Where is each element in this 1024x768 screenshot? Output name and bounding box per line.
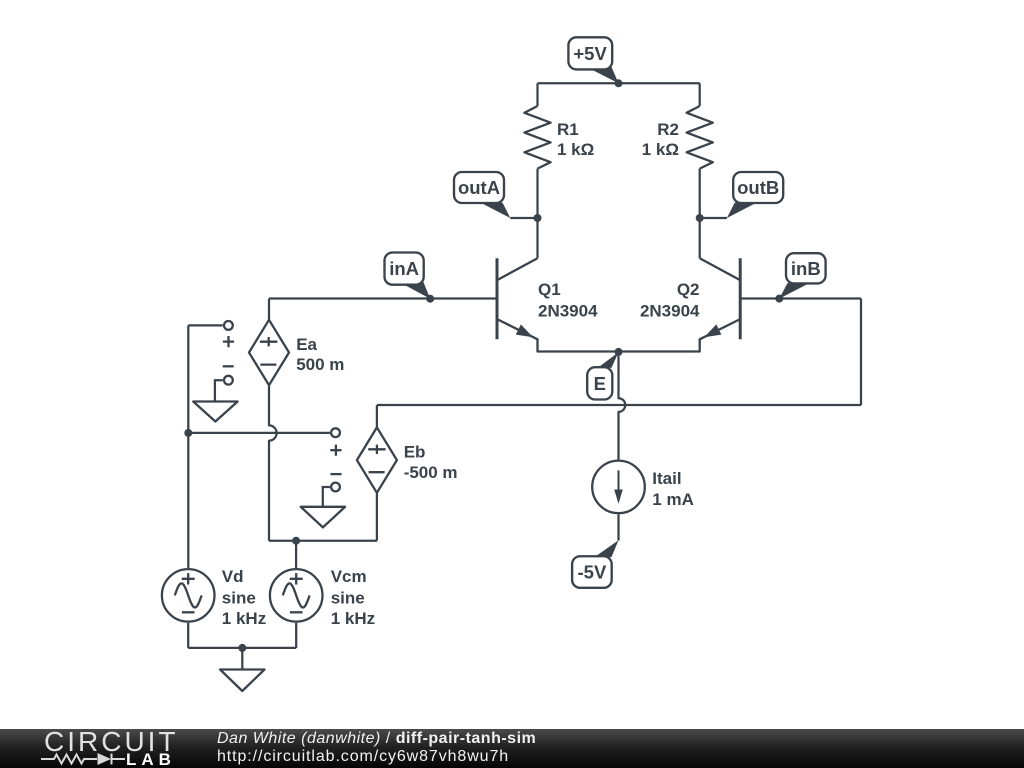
wire R1 bottom to outA node	[536, 169, 538, 218]
ground for Eb control	[301, 487, 345, 527]
source Vcm	[270, 569, 323, 622]
flag outB	[727, 172, 783, 218]
wire Q2 collector	[699, 218, 701, 258]
wire outB flag stub	[700, 217, 727, 219]
vcvs Eb	[357, 427, 397, 492]
node inA	[426, 295, 434, 303]
CircuitLab logo	[44, 726, 179, 758]
vcvs Ea	[249, 320, 289, 385]
Ea control + sign	[223, 336, 234, 347]
node inB	[775, 295, 783, 303]
label Vd value	[222, 567, 266, 628]
flag outA	[454, 172, 510, 218]
node ground junction	[238, 644, 246, 652]
wire control to Eb	[188, 432, 330, 434]
flag inB	[779, 253, 825, 298]
ground main	[220, 670, 264, 692]
wire Eb output to inB	[377, 404, 861, 406]
node outB	[696, 214, 704, 222]
wire R1 top stub	[536, 83, 538, 106]
Eb control - pin	[331, 483, 340, 492]
ground for Ea control	[193, 380, 237, 421]
resistor R1	[524, 106, 550, 169]
node outA	[534, 214, 542, 222]
wire inB down right side	[860, 299, 862, 406]
Ea control + pin	[224, 321, 233, 330]
label Q1	[538, 280, 598, 321]
transistor Q2	[619, 258, 741, 351]
wire Vcm top stub	[295, 541, 297, 568]
label Vcm value	[331, 567, 375, 628]
node VCC junction	[615, 79, 623, 87]
wire R2 bottom to outB node	[699, 169, 701, 218]
node E	[615, 348, 623, 356]
wire Eb top stub	[376, 405, 378, 427]
wire Vcm bottom	[295, 623, 297, 648]
transistor Q1	[497, 258, 619, 351]
label R1 value	[557, 120, 594, 159]
wire Itail to -5V	[617, 514, 619, 540]
footer bar	[0, 729, 1024, 768]
label R2 value	[642, 120, 679, 159]
wire E to Itail with hop	[619, 352, 626, 461]
current source Itail	[592, 461, 645, 514]
wire inA net	[269, 297, 497, 299]
Ea control - pin	[224, 376, 233, 385]
Eb control + pin	[331, 428, 340, 437]
wire Ea-Eb bottom link	[269, 540, 377, 542]
wire Q1 collector	[536, 218, 538, 258]
footer credit text	[217, 730, 536, 748]
label Eb value	[404, 443, 458, 482]
logo resistor-diode glyph	[41, 754, 125, 765]
node left control junction	[184, 429, 192, 437]
flag inA	[385, 253, 431, 299]
wire left vertical Vd to controls	[187, 325, 189, 568]
label Ea value	[296, 335, 344, 374]
wire outA flag stub	[510, 217, 537, 219]
label Q2	[640, 280, 700, 321]
wire Ea control stub	[188, 324, 222, 326]
label Itail value	[652, 469, 694, 509]
source Vd	[162, 569, 215, 622]
wire ground stub	[241, 648, 243, 670]
wire bottom ground link	[188, 647, 296, 649]
wire inA to Ea top	[268, 299, 270, 320]
power flag -5V	[572, 540, 618, 588]
Eb control + sign	[330, 445, 341, 456]
power flag +5V	[568, 37, 618, 83]
wire VCC top rail	[538, 82, 700, 84]
resistor R2	[687, 106, 713, 169]
flag E	[587, 352, 618, 399]
wire inB net	[740, 297, 861, 299]
wire Eb bottom stub	[376, 493, 378, 541]
wire Vd bottom	[187, 623, 189, 648]
Ea control - sign	[223, 365, 234, 367]
Eb control - sign	[331, 473, 342, 475]
wire R2 top stub	[699, 83, 701, 106]
node Vcm junction	[292, 537, 300, 545]
wire Ea bottom with hop	[269, 385, 277, 541]
